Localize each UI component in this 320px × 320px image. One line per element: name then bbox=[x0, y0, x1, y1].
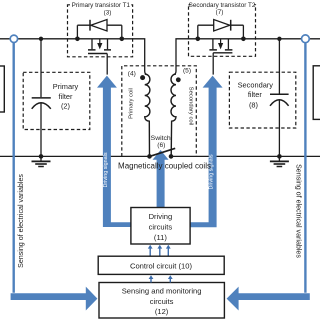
battery box (1) left edge bbox=[0, 66, 4, 112]
mosfet Q2 gate lead bbox=[212, 53, 214, 75]
svg-text:Driving signals: Driving signals bbox=[103, 152, 109, 187]
sensing tap line left (blue) bbox=[12, 43, 14, 293]
junction dot T2 right bbox=[241, 37, 246, 42]
junction dot C1-ground bbox=[39, 154, 44, 159]
mosfet Q1 leads and plates bbox=[92, 39, 108, 49]
ground secondary bbox=[270, 156, 289, 166]
capacitor C2 wire top bbox=[278, 39, 280, 94]
switch drive arrow middle (blue) bbox=[153, 150, 169, 208]
svg-text:Secondary coil: Secondary coil bbox=[188, 87, 194, 126]
capacitor C1 curved plate bbox=[32, 103, 51, 109]
junction dot T1 right bbox=[120, 37, 125, 42]
primary filter box (2) bbox=[23, 72, 90, 129]
junction dot T1 left bbox=[75, 37, 80, 42]
wire top rail left segment to primary coil bbox=[0, 39, 147, 75]
mosfet Q2 gate bar bbox=[213, 52, 232, 54]
inductor L2 polarity dot bbox=[176, 77, 181, 82]
diode D2 cathode bar bbox=[230, 20, 232, 31]
svg-text:(8): (8) bbox=[249, 101, 258, 110]
diode D2 triangle bbox=[214, 20, 230, 32]
switch S1 contact dots bbox=[147, 154, 152, 159]
transistor T1 box (3) bbox=[68, 5, 133, 57]
svg-text:circuits: circuits bbox=[149, 223, 173, 232]
svg-text:Driving signals: Driving signals bbox=[209, 154, 215, 189]
svg-text:Primary transistor T1: Primary transistor T1 bbox=[72, 2, 131, 9]
svg-text:(7): (7) bbox=[216, 9, 224, 16]
transistor T2 label bbox=[191, 1, 255, 8]
svg-text:Sensing of electrical variable: Sensing of electrical variables bbox=[295, 164, 303, 258]
mosfet Q1 gate lead bbox=[106, 54, 108, 75]
mosfet Q1 body arrow bbox=[99, 39, 101, 43]
svg-text:Sensing of electrical variable: Sensing of electrical variables bbox=[17, 174, 25, 268]
switch S1 blade bbox=[150, 148, 175, 156]
svg-text:Secondary: Secondary bbox=[238, 80, 274, 89]
inductor L1 primary coil bbox=[145, 74, 150, 156]
capacitor C1 top plate bbox=[32, 97, 51, 99]
capacitor C2 top plate bbox=[270, 93, 289, 95]
control circuit box (10) bbox=[98, 256, 224, 274]
driving signal arrow right (blue) bbox=[190, 76, 223, 228]
ground primary bbox=[32, 156, 51, 166]
svg-text:filter: filter bbox=[248, 90, 263, 99]
svg-text:circuits: circuits bbox=[150, 297, 174, 306]
wire bottom ground rail right bbox=[171, 155, 320, 157]
junction dot rail-C2 bbox=[277, 37, 281, 41]
svg-text:(11): (11) bbox=[154, 233, 167, 242]
sensing arrow right into box (12) bbox=[227, 287, 310, 311]
svg-text:(5): (5) bbox=[183, 68, 191, 75]
svg-text:Control circuit (10): Control circuit (10) bbox=[130, 261, 193, 270]
capacitor C2 wire bottom bbox=[278, 100, 280, 156]
diode D1 branch wires bbox=[77, 25, 121, 39]
junction dot C2-ground bbox=[277, 154, 282, 159]
svg-text:Primary: Primary bbox=[53, 82, 79, 91]
magnetically coupled coils box (4)(5)(6) bbox=[122, 66, 197, 157]
svg-text:(12): (12) bbox=[155, 307, 169, 316]
diode D1 triangle bbox=[91, 20, 107, 32]
battery box (9) right edge bbox=[313, 66, 320, 120]
svg-text:(2): (2) bbox=[61, 102, 70, 111]
capacitor C2 curved plate bbox=[270, 100, 289, 106]
inductor L1 polarity dot bbox=[140, 75, 145, 80]
small arrows control to driving bbox=[148, 245, 171, 256]
primary filter label bbox=[53, 82, 79, 111]
node A left source tap circle bbox=[10, 35, 17, 42]
svg-text:filter: filter bbox=[59, 92, 74, 101]
svg-text:Magnetically coupled coils: Magnetically coupled coils bbox=[118, 161, 211, 170]
svg-text:(3): (3) bbox=[104, 10, 112, 17]
wire top rail right segment from secondary coil bbox=[174, 39, 320, 75]
node B right source tap circle bbox=[302, 35, 310, 43]
transistor T1 label bbox=[70, 1, 131, 8]
small arrows sensing to control bbox=[149, 275, 173, 282]
capacitor C1 wire bottom bbox=[40, 103, 42, 156]
svg-text:(6): (6) bbox=[157, 142, 165, 149]
transistor T2 box (7) bbox=[189, 5, 256, 57]
mosfet Q1 gate bar bbox=[88, 53, 107, 55]
junction dot rail-C1 bbox=[39, 37, 43, 41]
sensing tap line right (blue) bbox=[304, 43, 306, 293]
diode D2 branch wires bbox=[198, 25, 244, 39]
driving signal arrow left (blue) bbox=[97, 76, 131, 227]
svg-text:Driving: Driving bbox=[149, 212, 173, 221]
svg-text:(4): (4) bbox=[128, 70, 136, 77]
svg-text:Primary coil: Primary coil bbox=[128, 88, 134, 119]
inductor L2 secondary coil bbox=[171, 74, 176, 156]
diode D1 cathode bar bbox=[89, 20, 91, 31]
svg-text:Sensing and monitoring: Sensing and monitoring bbox=[122, 287, 202, 296]
sensing arrow left into box (12) bbox=[11, 287, 98, 311]
mosfet Q2 leads and plates bbox=[213, 39, 229, 49]
sensing and monitoring box (12) bbox=[99, 283, 224, 319]
junction dot T2 left bbox=[196, 37, 201, 42]
secondary filter label bbox=[238, 80, 274, 109]
mosfet Q2 body arrow bbox=[220, 39, 222, 43]
driving circuits box (11) bbox=[131, 208, 190, 245]
svg-text:Switch: Switch bbox=[151, 135, 171, 142]
wire bottom ground rail left bbox=[0, 155, 150, 157]
capacitor C1 wire top bbox=[40, 39, 42, 97]
secondary filter box (8) bbox=[229, 72, 295, 128]
